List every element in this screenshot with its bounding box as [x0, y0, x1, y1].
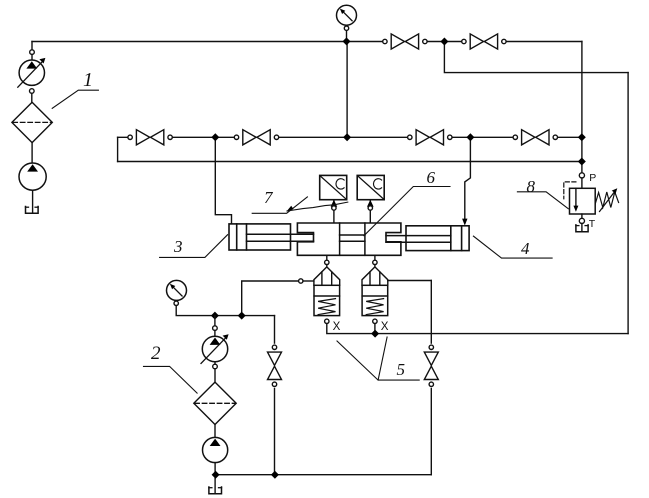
pump item2 [203, 437, 228, 462]
port circle G1 stem [344, 26, 348, 30]
label 3 [173, 237, 183, 256]
label X right [381, 320, 389, 333]
variable pump-motor item2 [201, 334, 229, 363]
wire X line y=333.6 [327, 324, 628, 334]
wire [214, 316, 216, 326]
cylinder C4 barrel [406, 226, 469, 251]
pump item1 [19, 163, 46, 190]
junction row2 right [466, 133, 474, 141]
variable pump-motor item1 [18, 58, 46, 87]
tank relief valve [576, 225, 588, 232]
junction rail-1 [211, 312, 219, 320]
shut-off valve top row B [462, 32, 506, 51]
wire gauge G1 stem [346, 25, 348, 41]
label 5 [397, 360, 406, 379]
wire [214, 369, 216, 383]
port circle [30, 89, 35, 94]
wire gauge G2 stem and rail y=315.6 [176, 301, 274, 316]
svg-text:T: T [589, 218, 596, 230]
wire right riser x=581.8 [581, 42, 583, 173]
wire [214, 362, 216, 365]
label 7 leader [252, 197, 348, 213]
wire block port to valve 5R [374, 255, 376, 260]
junction bottom rail 2 [271, 471, 279, 479]
shut-off valve row2 A [128, 128, 172, 147]
relief valve adjust arrow [600, 188, 618, 211]
wire item1 riser x=32 [31, 42, 33, 51]
port circle on 5L pilot line [299, 279, 303, 283]
label 1 [83, 69, 93, 91]
cylinder C3 piston lines [237, 224, 247, 250]
shut-off valve row2 D [513, 128, 557, 147]
port circle P [579, 173, 584, 178]
wire [214, 425, 216, 438]
label 2 [151, 343, 161, 364]
wire [581, 224, 583, 232]
filter item2 [194, 382, 236, 424]
transducer box B2 [357, 175, 384, 199]
wire gauge G1 column x=347 [346, 42, 348, 138]
svg-text:P: P [589, 172, 596, 184]
wire 5R bottom link [374, 324, 376, 334]
label 2 leader [144, 366, 198, 393]
transducer box B1 [320, 175, 347, 199]
gauge G1 [337, 5, 357, 25]
label 5 leader [337, 337, 419, 380]
pilot valve 5R [362, 260, 388, 323]
wire cylinder C4 feed [465, 137, 471, 219]
svg-text:X: X [381, 320, 389, 333]
svg-text:5: 5 [397, 360, 406, 379]
wire [31, 54, 33, 61]
svg-text:X: X [333, 320, 341, 333]
block center band [340, 235, 365, 241]
relief valve body [570, 188, 596, 214]
svg-text:1: 1 [83, 69, 93, 91]
svg-text:2: 2 [151, 343, 161, 364]
wire block port to valve 5L [326, 255, 328, 260]
shut-off valve left column [265, 344, 284, 388]
label 6 leader [364, 187, 450, 236]
junction lower row end [578, 158, 586, 166]
tank item1 [26, 207, 39, 214]
junction row2 left [211, 133, 219, 141]
pilot valve 5L [314, 260, 340, 323]
label T [589, 218, 596, 230]
wire [31, 93, 33, 102]
svg-text:6: 6 [427, 168, 436, 187]
wire valve 5R to right drop [388, 280, 432, 282]
wire [214, 463, 216, 494]
wire transducer B1 drop [333, 201, 335, 223]
wire junction top-1 drop to bypass [444, 42, 628, 73]
port circle item1 top [30, 50, 35, 55]
junction bottom rail [212, 471, 220, 479]
svg-text:4: 4 [521, 239, 530, 258]
wire right drop x=431.3 [430, 281, 432, 475]
wire [581, 214, 583, 218]
wire transducer B2 drop [369, 201, 371, 223]
distribution block item6 body [297, 223, 401, 255]
block divider right [364, 223, 366, 255]
cylinder C4 piston lines [451, 226, 462, 251]
wire second row upper y=137.3 [118, 136, 582, 138]
label 8 leader [517, 192, 568, 209]
wire top supply line y=41.5 [32, 41, 582, 43]
filter item1 [12, 102, 52, 142]
cylinder C4 rod [386, 236, 451, 243]
relief valve spring [595, 192, 618, 208]
port circle [213, 326, 218, 331]
shut-off valve top row A [383, 32, 427, 51]
shut-off valve row2 B [234, 128, 278, 147]
wire [214, 330, 216, 337]
wire [581, 178, 583, 188]
arrow into transducer B2 [367, 200, 374, 207]
wire left bracket x=117.6 [117, 137, 119, 161]
wire [31, 143, 33, 164]
junction gauge G1 [343, 37, 351, 45]
label X left [333, 320, 341, 333]
svg-text:8: 8 [527, 177, 536, 196]
wire cylinder C3 feed [215, 137, 231, 224]
label 7 [264, 188, 274, 207]
port circle G2 stem [174, 301, 178, 305]
relief valve flow arrow [573, 188, 578, 212]
shut-off valve right column [422, 344, 441, 388]
tank item2 [209, 487, 222, 494]
label 4 [521, 239, 530, 258]
wire left drop x=274.5 [274, 316, 276, 475]
port circle T [579, 218, 584, 223]
wire [32, 190, 34, 213]
arrow into cylinder C4 [462, 219, 467, 226]
wire second row lower y=161.5 [118, 161, 582, 163]
label 8 [527, 177, 536, 196]
label 4 leader [473, 236, 552, 258]
wire pilot line to valve 5L [242, 281, 299, 316]
wire pump2 bottom rail y=474.7 [216, 474, 432, 476]
label 1 leader [52, 90, 98, 108]
junction row2 end [578, 133, 586, 141]
port circle on B2 drop [368, 206, 372, 210]
arrow into transducer B1 [331, 200, 338, 207]
label P [589, 172, 596, 184]
wire pilot into 5L [303, 280, 314, 282]
label 3 leader [160, 235, 228, 258]
junction row2 center [343, 133, 351, 141]
gauge G2 [167, 280, 187, 300]
wire right-edge return x=628 [627, 73, 629, 334]
label 6 [427, 168, 436, 187]
block divider left [339, 223, 341, 255]
cylinder C3 barrel [229, 224, 291, 250]
relief valve pilot dashed [564, 182, 576, 199]
cylinder C3 rod [247, 234, 314, 241]
junction top row [440, 38, 448, 46]
port circle on B1 drop [332, 206, 336, 210]
junction X line [371, 330, 379, 338]
svg-text:3: 3 [173, 237, 183, 256]
junction rail-2 [238, 312, 246, 320]
shut-off valve row2 C [408, 128, 452, 147]
port circle [213, 364, 218, 369]
